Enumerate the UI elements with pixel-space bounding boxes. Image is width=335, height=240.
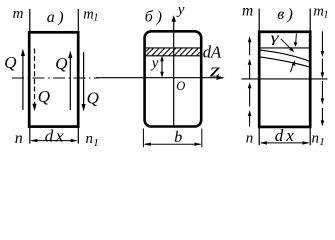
beam axis (v) <box>242 78 328 80</box>
svg-text:Q: Q <box>38 87 50 106</box>
beam element outline a <box>29 32 78 126</box>
svg-text:Q: Q <box>4 53 16 72</box>
svg-text:Q: Q <box>87 89 99 108</box>
svg-text:n: n <box>15 130 23 147</box>
gamma arrow up <box>290 60 295 72</box>
svg-text:m: m <box>313 4 323 20</box>
dimension b <box>144 143 202 146</box>
z axis <box>96 76 225 80</box>
tau arrows right face (down) <box>321 31 323 122</box>
hatched strip dA top line <box>146 47 200 49</box>
svg-text:n: n <box>246 131 254 147</box>
svg-text:m: m <box>13 6 24 22</box>
force arrow Q outside-right <box>82 52 86 111</box>
cross-section outline <box>145 31 202 126</box>
svg-text:1: 1 <box>93 13 98 24</box>
dim y (strip offset) <box>160 56 164 77</box>
svg-text:dA: dA <box>203 43 222 62</box>
svg-text:y: y <box>176 2 185 18</box>
beam element outline v <box>259 32 310 127</box>
tau arrows left face (up) <box>249 40 251 127</box>
section line m1 <box>77 9 79 144</box>
gamma arrow vertical <box>294 34 298 47</box>
svg-text:n: n <box>86 131 94 147</box>
svg-text:1: 1 <box>323 10 328 21</box>
sheared fiber line 2 <box>259 57 309 67</box>
svg-text:b: b <box>174 129 182 146</box>
svg-text:y: y <box>150 56 159 72</box>
dim b extension left <box>142 129 144 148</box>
svg-text:n: n <box>312 130 320 146</box>
section line m (v) <box>258 9 260 146</box>
svg-text:1: 1 <box>319 136 325 148</box>
y axis <box>171 15 176 126</box>
svg-text:1: 1 <box>93 137 99 149</box>
svg-text:z: z <box>209 60 220 81</box>
svg-text:m: m <box>242 2 253 19</box>
force arrow Q inside-right <box>68 51 72 110</box>
dimension dx (panel v) <box>260 141 310 144</box>
section line m1 (v) <box>309 9 311 146</box>
svg-text:Q: Q <box>55 54 67 73</box>
force arrow Q inside-left (dashed) <box>32 49 36 112</box>
svg-text:m: m <box>83 6 93 22</box>
svg-text:O: O <box>176 79 185 93</box>
svg-text:dx: dx <box>45 127 66 146</box>
gamma arrow slanted <box>281 39 294 52</box>
svg-text:dx: dx <box>275 126 297 145</box>
hatch lines <box>146 48 200 56</box>
hatched strip dA bottom line <box>146 55 200 57</box>
dim b extension right <box>201 129 203 148</box>
shear layer top line <box>260 47 310 49</box>
dimension dx (panel a) <box>30 139 78 142</box>
force arrow Q outside-left <box>21 49 25 110</box>
svg-text:γ: γ <box>271 29 280 45</box>
section line m <box>29 9 31 144</box>
sheared fiber line 1 <box>259 50 309 61</box>
beam axis dash-dot a <box>12 77 99 79</box>
